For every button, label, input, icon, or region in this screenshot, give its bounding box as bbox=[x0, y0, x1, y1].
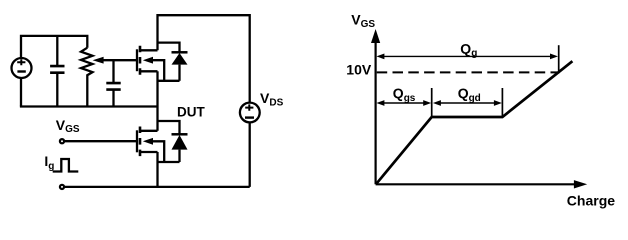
Qgd arrow line bbox=[439, 102, 496, 104]
potentiometer R1 bbox=[81, 48, 93, 107]
voltage source V1 bbox=[12, 58, 32, 78]
svg-text:Qg: Qg bbox=[460, 41, 477, 60]
transistor Q2 body arrow bbox=[150, 141, 164, 162]
terminal VGS node bbox=[60, 139, 64, 143]
Ig pulse waveform bbox=[53, 159, 79, 172]
Qgs arrow line bbox=[383, 102, 425, 104]
transistor Q2 source stub bbox=[140, 151, 158, 153]
svg-text:VGS: VGS bbox=[56, 117, 80, 135]
wire Q2 source down bbox=[156, 152, 158, 187]
transistor Q1 gate bar bbox=[136, 49, 138, 71]
wire Q2 source-diode bottom bbox=[158, 161, 180, 163]
transistor Q1 body arrow bbox=[150, 60, 164, 81]
voltage source VDS bbox=[240, 103, 260, 123]
transistor Q2 (DUT) gate bar bbox=[136, 130, 138, 152]
diode D2 bbox=[158, 121, 180, 134]
Qgs arrowheads bbox=[376, 100, 384, 106]
svg-text:VDS: VDS bbox=[260, 90, 284, 109]
gate charge curve bbox=[376, 61, 573, 184]
svg-text:Ig: Ig bbox=[44, 153, 54, 172]
Qg arrow line bbox=[383, 55, 552, 57]
y-axis bbox=[375, 41, 377, 184]
svg-text:10V: 10V bbox=[346, 61, 372, 77]
wire gate terminal to Q2 bbox=[64, 140, 137, 142]
svg-text:Charge: Charge bbox=[567, 193, 615, 209]
wiper arrow wire bbox=[101, 59, 137, 61]
y-axis arrowhead bbox=[371, 29, 380, 43]
wire VDS bottom lead bbox=[249, 123, 251, 187]
tick Qg end bbox=[558, 45, 560, 73]
svg-text:Qgs: Qgs bbox=[393, 85, 416, 104]
Qg arrowheads bbox=[376, 54, 384, 60]
transistor Q1 channel bbox=[139, 46, 142, 75]
wire bottom rail bbox=[64, 186, 249, 188]
svg-text:DUT: DUT bbox=[177, 104, 205, 119]
wire bias loop top bbox=[21, 36, 87, 58]
tick Qgd boundary 2 bbox=[501, 88, 503, 116]
transistor Q2 drain stub bbox=[140, 130, 158, 132]
transistor Q2 channel bbox=[139, 127, 142, 157]
x-axis bbox=[376, 183, 576, 185]
capacitor C1 bbox=[56, 36, 58, 107]
Qgd arrowheads bbox=[433, 100, 441, 106]
x-axis arrowhead bbox=[574, 180, 587, 188]
wire mid rail bbox=[156, 71, 158, 131]
svg-text:VGS: VGS bbox=[351, 11, 375, 30]
transistor Q1 drain stub bbox=[140, 49, 158, 51]
transistor Q1 source stub bbox=[140, 70, 158, 72]
wire top rail bbox=[158, 15, 250, 102]
capacitor C2 bbox=[112, 60, 114, 106]
wire V1 bottom lead bbox=[20, 78, 22, 107]
wire Q1 source-diode bottom bbox=[158, 80, 180, 82]
dashed 10V line bbox=[377, 71, 558, 73]
wire bias loop bottom bbox=[20, 105, 158, 107]
tick Qgs/Qgd boundary 1 bbox=[431, 88, 433, 116]
diode D1 bbox=[158, 43, 180, 52]
svg-text:Qgd: Qgd bbox=[458, 85, 481, 104]
terminal Ig node bbox=[60, 185, 64, 189]
GRAPH bbox=[376, 41, 576, 184]
